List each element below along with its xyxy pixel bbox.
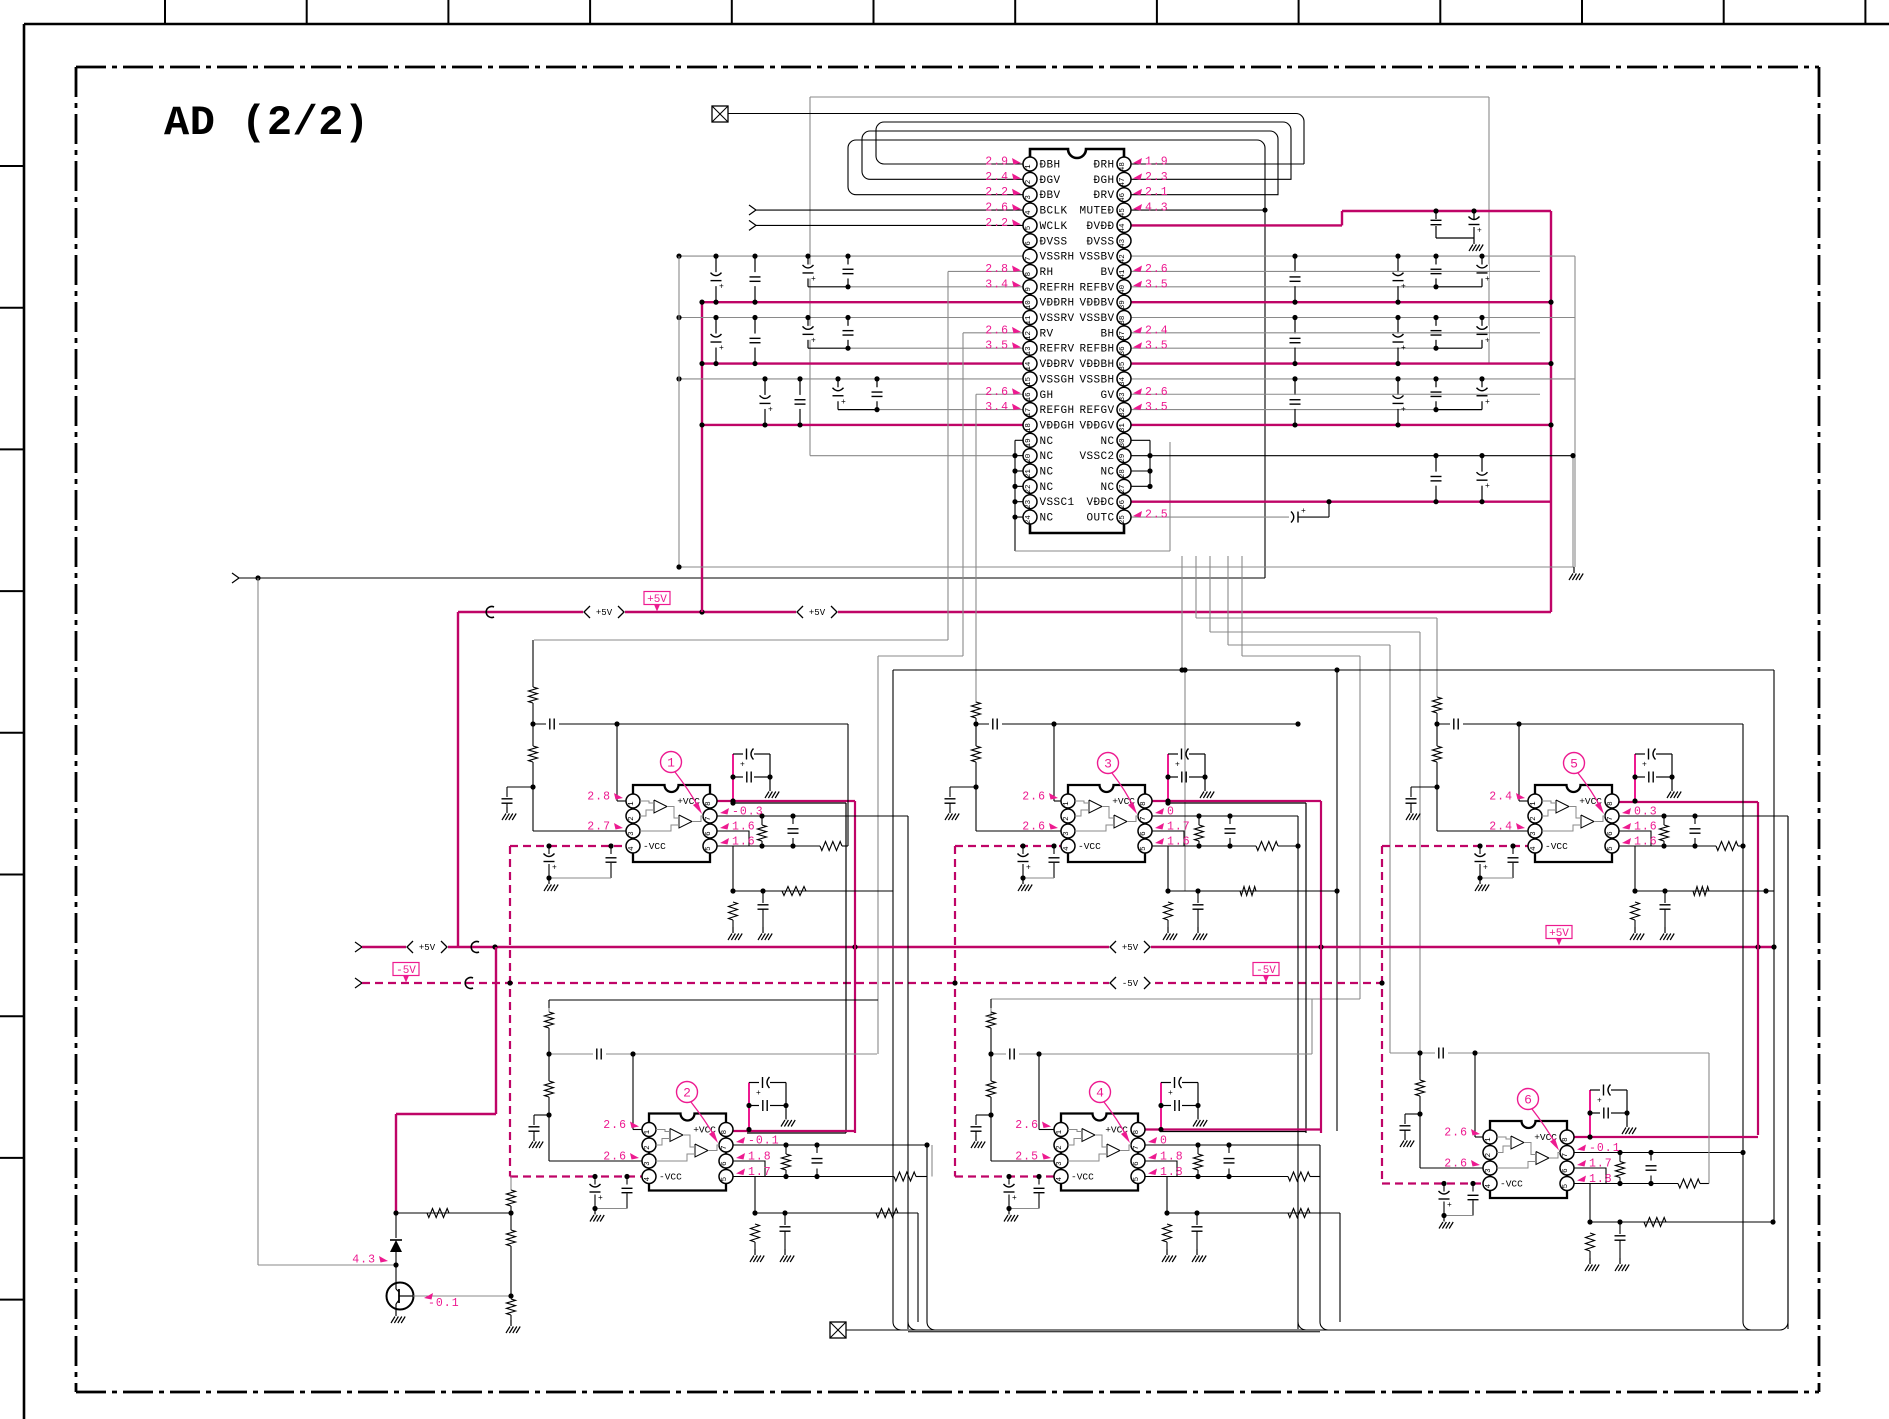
svg-text:-0.1: -0.1 (428, 1297, 460, 1310)
svg-text:2: 2 (1485, 1153, 1493, 1158)
svg-text:+: + (1447, 1201, 1452, 1210)
svg-text:2.6: 2.6 (985, 324, 1009, 337)
svg-text:7: 7 (1140, 816, 1148, 821)
svg-text:6: 6 (1524, 1093, 1532, 1108)
svg-text:31: 31 (1119, 423, 1127, 433)
svg-text:5: 5 (1133, 1176, 1141, 1181)
svg-text:NC: NC (1040, 436, 1054, 448)
svg-text:5: 5 (1570, 757, 1578, 772)
svg-text:2.6: 2.6 (1444, 1127, 1468, 1140)
svg-text:1.8: 1.8 (748, 1151, 772, 1164)
svg-text:VSSGH: VSSGH (1040, 374, 1075, 386)
svg-text:8: 8 (1140, 801, 1148, 806)
svg-text:+: + (1012, 1194, 1017, 1203)
svg-text:2: 2 (644, 1145, 652, 1150)
svg-text:VSSBH: VSSBH (1079, 374, 1114, 386)
svg-text:2.6: 2.6 (1015, 1119, 1039, 1132)
svg-text:1: 1 (1530, 801, 1538, 806)
svg-text:5: 5 (1140, 846, 1148, 851)
svg-text:VSSC2: VSSC2 (1079, 451, 1114, 463)
svg-text:+: + (598, 1194, 603, 1203)
svg-text:4: 4 (1530, 846, 1538, 851)
svg-text:+: + (1175, 761, 1180, 770)
svg-text:1.6: 1.6 (1167, 836, 1191, 849)
svg-text:1: 1 (1025, 164, 1033, 169)
svg-text:8: 8 (1025, 272, 1033, 277)
svg-text:+: + (756, 1089, 761, 1098)
svg-text:0.3: 0.3 (1634, 806, 1658, 819)
svg-text:1: 1 (1485, 1137, 1493, 1142)
svg-text:RV: RV (1040, 328, 1054, 340)
svg-text:+: + (841, 398, 846, 407)
svg-text:REFBV: REFBV (1079, 282, 1114, 294)
svg-text:1: 1 (667, 756, 675, 771)
svg-text:NC: NC (1040, 451, 1054, 463)
svg-text:3.4: 3.4 (985, 401, 1009, 414)
svg-text:47: 47 (1119, 177, 1127, 186)
svg-text:1.6: 1.6 (1634, 821, 1658, 834)
svg-text:VSSRV: VSSRV (1040, 313, 1075, 325)
svg-text:BCLK: BCLK (1040, 206, 1068, 218)
svg-text:43: 43 (1119, 238, 1127, 248)
svg-text:32: 32 (1119, 408, 1127, 417)
svg-text:+5V: +5V (647, 594, 667, 606)
svg-text:+: + (1401, 405, 1406, 414)
svg-text:+: + (1597, 1097, 1602, 1106)
svg-text:2.4: 2.4 (1489, 821, 1513, 834)
svg-text:NC: NC (1100, 482, 1114, 494)
svg-text:44: 44 (1119, 223, 1127, 233)
svg-text:3.5: 3.5 (1145, 401, 1169, 414)
svg-text:VĐĐGH: VĐĐGH (1040, 420, 1075, 432)
svg-text:2.8: 2.8 (587, 791, 611, 804)
svg-text:1.8: 1.8 (1589, 1173, 1613, 1186)
svg-text:+: + (1483, 864, 1488, 873)
svg-text:2.5: 2.5 (1015, 1151, 1039, 1164)
svg-text:24: 24 (1025, 515, 1033, 525)
svg-text:1.9: 1.9 (1145, 156, 1169, 169)
svg-text:4.3: 4.3 (352, 1254, 376, 1267)
svg-text:ĐGV: ĐGV (1040, 175, 1061, 187)
svg-text:7: 7 (1562, 1153, 1570, 1158)
svg-text:15: 15 (1025, 377, 1033, 387)
svg-text:25: 25 (1119, 515, 1127, 525)
svg-text:4: 4 (1485, 1183, 1493, 1188)
svg-text:2.2: 2.2 (985, 217, 1009, 230)
svg-text:21: 21 (1025, 469, 1033, 479)
svg-text:6: 6 (1133, 1161, 1141, 1166)
svg-text:2.3: 2.3 (1145, 171, 1169, 184)
svg-text:MUTEĐ: MUTEĐ (1079, 206, 1114, 218)
svg-text:3: 3 (1485, 1168, 1493, 1173)
svg-text:NC: NC (1040, 482, 1054, 494)
svg-text:7: 7 (1133, 1145, 1141, 1150)
svg-text:+: + (1642, 761, 1647, 770)
svg-text:6: 6 (1025, 241, 1033, 246)
svg-text:27: 27 (1119, 484, 1127, 493)
svg-text:WCLK: WCLK (1040, 221, 1068, 233)
svg-text:16: 16 (1025, 392, 1033, 402)
svg-text:1.6: 1.6 (1634, 836, 1658, 849)
svg-text:4: 4 (1096, 1086, 1104, 1101)
svg-text:-0.3: -0.3 (732, 806, 764, 819)
svg-text:41: 41 (1119, 269, 1127, 279)
svg-text:VĐĐRV: VĐĐRV (1040, 359, 1075, 371)
svg-text:2: 2 (683, 1086, 691, 1101)
svg-text:2.2: 2.2 (985, 186, 1009, 199)
svg-text:10: 10 (1025, 300, 1033, 310)
svg-text:48: 48 (1119, 162, 1127, 171)
svg-text:VĐĐBH: VĐĐBH (1079, 359, 1114, 371)
svg-text:NC: NC (1100, 436, 1114, 448)
svg-text:1.8: 1.8 (1160, 1166, 1184, 1179)
svg-text:+: + (811, 275, 816, 284)
svg-text:-VCC: -VCC (1078, 841, 1101, 852)
svg-text:ĐGH: ĐGH (1093, 175, 1114, 187)
svg-text:35: 35 (1119, 361, 1127, 371)
svg-text:3: 3 (1063, 831, 1071, 836)
svg-text:1.7: 1.7 (1589, 1158, 1613, 1171)
svg-text:VĐĐBV: VĐĐBV (1079, 298, 1114, 310)
svg-text:ĐRV: ĐRV (1093, 190, 1114, 202)
svg-text:0: 0 (1167, 806, 1175, 819)
svg-text:0: 0 (1160, 1135, 1168, 1148)
svg-text:-5V: -5V (396, 965, 416, 977)
svg-text:2.4: 2.4 (985, 171, 1009, 184)
svg-text:2.6: 2.6 (1022, 791, 1046, 804)
svg-text:-VCC: -VCC (643, 841, 666, 852)
svg-text:8: 8 (721, 1130, 729, 1135)
svg-text:VSSBV: VSSBV (1079, 252, 1114, 264)
svg-text:ĐVĐĐ: ĐVĐĐ (1086, 221, 1114, 233)
svg-text:6: 6 (705, 831, 713, 836)
svg-text:3: 3 (1530, 831, 1538, 836)
svg-text:28: 28 (1119, 469, 1127, 478)
svg-text:-VCC: -VCC (1071, 1172, 1094, 1183)
svg-text:45: 45 (1119, 208, 1127, 218)
svg-text:-0.1: -0.1 (748, 1135, 780, 1148)
svg-text:4: 4 (1063, 846, 1071, 851)
svg-text:3.4: 3.4 (985, 278, 1009, 291)
svg-text:38: 38 (1119, 316, 1127, 325)
svg-text:2.6: 2.6 (1145, 386, 1169, 399)
svg-text:+: + (768, 405, 773, 414)
svg-text:2.6: 2.6 (985, 386, 1009, 399)
svg-text:30: 30 (1119, 438, 1127, 448)
svg-text:GV: GV (1100, 390, 1114, 402)
svg-text:2.6: 2.6 (985, 202, 1009, 215)
svg-text:3: 3 (644, 1161, 652, 1166)
svg-text:2: 2 (1530, 816, 1538, 821)
svg-text:8: 8 (1133, 1130, 1141, 1135)
svg-text:+5V: +5V (809, 608, 826, 618)
svg-text:8: 8 (1607, 801, 1615, 806)
svg-text:2.6: 2.6 (1444, 1158, 1468, 1171)
svg-text:VĐĐC: VĐĐC (1086, 497, 1114, 509)
svg-text:+: + (1485, 336, 1490, 345)
svg-text:5: 5 (721, 1176, 729, 1181)
svg-text:6: 6 (1607, 831, 1615, 836)
svg-text:39: 39 (1119, 300, 1127, 309)
svg-text:BH: BH (1100, 328, 1114, 340)
svg-text:1: 1 (644, 1129, 652, 1134)
svg-text:1.6: 1.6 (732, 821, 756, 834)
svg-text:NC: NC (1040, 513, 1054, 525)
svg-text:5: 5 (1607, 846, 1615, 851)
svg-text:1: 1 (1063, 801, 1071, 806)
svg-text:RH: RH (1040, 267, 1054, 279)
svg-text:-VCC: -VCC (1545, 841, 1568, 852)
svg-text:5: 5 (1025, 225, 1033, 230)
svg-text:5: 5 (705, 846, 713, 851)
svg-text:2: 2 (1056, 1145, 1064, 1150)
svg-text:40: 40 (1119, 284, 1127, 294)
svg-text:+5V: +5V (1122, 943, 1139, 953)
svg-text:1.8: 1.8 (1160, 1151, 1184, 1164)
svg-text:46: 46 (1119, 192, 1127, 202)
svg-text:3.5: 3.5 (1145, 278, 1169, 291)
svg-text:23: 23 (1025, 499, 1033, 509)
svg-text:REFRH: REFRH (1040, 282, 1075, 294)
svg-text:8: 8 (705, 801, 713, 806)
svg-text:2.5: 2.5 (1145, 509, 1169, 522)
svg-text:4: 4 (1025, 210, 1033, 215)
svg-text:2.4: 2.4 (1489, 791, 1513, 804)
svg-text:+: + (1301, 507, 1306, 516)
svg-text:2.6: 2.6 (603, 1119, 627, 1132)
svg-text:+: + (552, 864, 557, 873)
svg-text:6: 6 (1140, 831, 1148, 836)
svg-text:2: 2 (628, 816, 636, 821)
svg-text:33: 33 (1119, 392, 1127, 402)
svg-text:2: 2 (1063, 816, 1071, 821)
svg-text:20: 20 (1025, 453, 1033, 463)
svg-text:+: + (1026, 864, 1031, 873)
svg-text:29: 29 (1119, 454, 1127, 463)
svg-text:NC: NC (1100, 467, 1114, 479)
svg-text:34: 34 (1119, 377, 1127, 387)
svg-text:3: 3 (628, 831, 636, 836)
svg-text:4: 4 (1056, 1176, 1064, 1181)
svg-text:1.6: 1.6 (732, 836, 756, 849)
svg-text:37: 37 (1119, 331, 1127, 340)
svg-text:2.1: 2.1 (1145, 186, 1169, 199)
svg-text:REFRV: REFRV (1040, 344, 1075, 356)
svg-text:OUTC: OUTC (1086, 513, 1114, 525)
svg-text:ĐRH: ĐRH (1093, 160, 1114, 172)
svg-text:+: + (740, 761, 745, 770)
svg-text:REFGV: REFGV (1079, 405, 1114, 417)
svg-text:2.9: 2.9 (985, 156, 1009, 169)
svg-text:+: + (1401, 344, 1406, 353)
svg-text:7: 7 (705, 816, 713, 821)
svg-text:7: 7 (1607, 816, 1615, 821)
svg-text:-0.1: -0.1 (1589, 1142, 1621, 1155)
svg-text:2.8: 2.8 (985, 263, 1009, 276)
svg-text:+5V: +5V (1549, 928, 1569, 940)
svg-text:-VCC: -VCC (659, 1172, 682, 1183)
svg-text:2: 2 (1025, 180, 1033, 185)
svg-text:4: 4 (644, 1176, 652, 1181)
svg-text:3: 3 (1056, 1161, 1064, 1166)
svg-text:7: 7 (1025, 256, 1033, 261)
svg-text:4: 4 (628, 846, 636, 851)
svg-text:+5V: +5V (419, 943, 436, 953)
svg-text:3.5: 3.5 (985, 340, 1009, 353)
svg-text:+: + (719, 344, 724, 353)
svg-text:+: + (1401, 283, 1406, 292)
svg-text:-5V: -5V (1122, 979, 1139, 989)
svg-text:8: 8 (1562, 1137, 1570, 1142)
svg-text:14: 14 (1025, 361, 1033, 371)
svg-text:VSSC1: VSSC1 (1040, 497, 1075, 509)
svg-text:42: 42 (1119, 254, 1127, 263)
svg-text:3.5: 3.5 (1145, 340, 1169, 353)
svg-text:19: 19 (1025, 438, 1033, 447)
svg-text:2.7: 2.7 (587, 821, 611, 834)
svg-text:ĐVSS: ĐVSS (1040, 236, 1068, 248)
svg-text:9: 9 (1025, 287, 1033, 292)
svg-text:36: 36 (1119, 346, 1127, 356)
svg-text:5: 5 (1562, 1183, 1570, 1188)
svg-text:6: 6 (1562, 1168, 1570, 1173)
svg-text:-5V: -5V (1256, 965, 1276, 977)
svg-text:+: + (719, 283, 724, 292)
svg-text:GH: GH (1040, 390, 1054, 402)
svg-text:REFGH: REFGH (1040, 405, 1075, 417)
svg-text:11: 11 (1025, 315, 1033, 325)
svg-text:2.6: 2.6 (603, 1151, 627, 1164)
svg-text:BV: BV (1100, 267, 1114, 279)
svg-text:3: 3 (1025, 195, 1033, 200)
svg-text:12: 12 (1025, 331, 1033, 340)
svg-text:+: + (1485, 398, 1490, 407)
svg-text:2.4: 2.4 (1145, 324, 1169, 337)
svg-text:+: + (811, 336, 816, 345)
svg-text:22: 22 (1025, 484, 1033, 493)
svg-text:1.7: 1.7 (748, 1166, 772, 1179)
svg-text:1.7: 1.7 (1167, 821, 1191, 834)
svg-text:AD (2/2): AD (2/2) (164, 99, 370, 147)
svg-text:+: + (1168, 1089, 1173, 1098)
svg-text:VĐĐRH: VĐĐRH (1040, 298, 1075, 310)
svg-text:ĐVSS: ĐVSS (1086, 236, 1114, 248)
svg-text:17: 17 (1025, 408, 1033, 417)
svg-text:3: 3 (1104, 757, 1112, 772)
svg-text:2.6: 2.6 (1022, 821, 1046, 834)
svg-text:18: 18 (1025, 423, 1033, 432)
svg-text:+: + (1485, 482, 1490, 491)
svg-text:1: 1 (628, 801, 636, 806)
svg-text:4.3: 4.3 (1145, 202, 1169, 215)
svg-text:+: + (1477, 227, 1482, 236)
svg-text:2.6: 2.6 (1145, 263, 1169, 276)
svg-text:7: 7 (721, 1145, 729, 1150)
svg-text:VSSRH: VSSRH (1040, 252, 1075, 264)
svg-text:6: 6 (721, 1161, 729, 1166)
svg-text:ĐBV: ĐBV (1040, 190, 1061, 202)
svg-text:+: + (1485, 275, 1490, 284)
svg-text:13: 13 (1025, 346, 1033, 356)
svg-text:REFBH: REFBH (1079, 344, 1114, 356)
svg-text:-VCC: -VCC (1500, 1179, 1523, 1190)
svg-text:NC: NC (1040, 467, 1054, 479)
svg-text:1: 1 (1056, 1129, 1064, 1134)
svg-text:VĐĐGV: VĐĐGV (1079, 420, 1114, 432)
svg-text:VSSBV: VSSBV (1079, 313, 1114, 325)
svg-text:+5V: +5V (596, 608, 613, 618)
svg-text:26: 26 (1119, 499, 1127, 509)
svg-text:ĐBH: ĐBH (1040, 160, 1061, 172)
